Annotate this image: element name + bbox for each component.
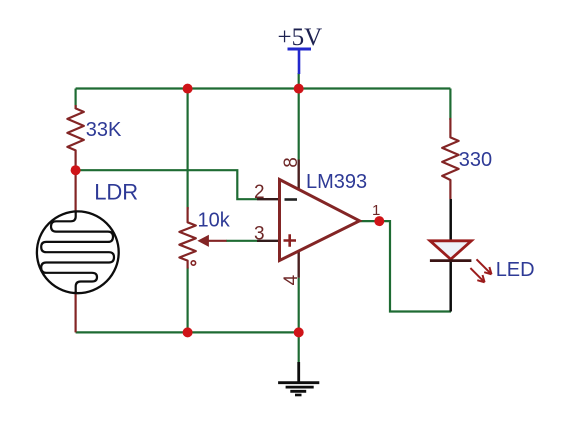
svg-text:+5V: +5V: [278, 24, 323, 51]
potentiometer terminal circle: [191, 261, 195, 265]
junction node bottom-pot: [183, 327, 193, 337]
svg-text:3: 3: [254, 224, 265, 245]
op-amp U1 pin8 stub: [298, 160, 300, 194]
wire bottom horizontal rail: [76, 331, 299, 333]
LED D1 triangle: [430, 241, 471, 259]
resistor R2 330: [442, 118, 458, 199]
LED emission arrow 1: [477, 259, 492, 274]
op-amp U1 pin3 stub: [257, 240, 280, 242]
junction node 33K-LDR: [71, 165, 81, 175]
wire left vertical from rail to 33K: [74, 89, 76, 110]
svg-text:330: 330: [459, 149, 492, 171]
wire pot bottom vertical: [187, 268, 189, 333]
wire mid vertical from rail to pot: [187, 89, 189, 210]
wire ground drop: [298, 332, 300, 362]
potentiometer wiper arrow: [209, 240, 227, 242]
LED D1 cathode bar: [430, 259, 472, 262]
ground symbol: [297, 362, 300, 382]
junction node bottom-gnd: [294, 327, 304, 337]
wire node-2 horizontal from 33K/LDR junction: [76, 170, 257, 199]
op-amp U1 triangle: [280, 180, 360, 261]
power +5V symbol bar: [288, 48, 312, 51]
junction node rail-mid: [294, 84, 304, 94]
junction node output: [374, 216, 384, 226]
svg-text:2: 2: [254, 182, 265, 203]
svg-text:LDR: LDR: [94, 180, 138, 205]
wire pin3 horizontal from pot wiper: [226, 240, 257, 242]
potentiometer RV1 10k body: [179, 207, 195, 269]
svg-text:33K: 33K: [86, 119, 122, 141]
wire pin8 vertical from rail to op-amp: [298, 73, 300, 160]
LED emission arrow 2: [470, 268, 484, 282]
svg-text:10k: 10k: [198, 210, 231, 232]
LDR body circle: [37, 211, 119, 293]
junction node rail-left: [183, 84, 193, 94]
op-amp minus marker: [285, 198, 298, 201]
op-amp U1 pin4 stub: [298, 249, 300, 278]
op-amp U1 pin2 stub: [257, 198, 280, 200]
wire top horizontal +5V rail: [76, 87, 451, 89]
LDR lead top: [74, 170, 76, 213]
LDR lead bottom: [74, 291, 76, 332]
svg-text:8: 8: [281, 157, 302, 168]
LDR serpentine track: [41, 213, 114, 293]
power +5V lead: [298, 49, 301, 74]
op-amp plus marker: [284, 234, 297, 247]
wire output to LED return: [360, 221, 452, 311]
resistor R1 33K: [67, 105, 83, 170]
LED D1 top lead: [449, 199, 452, 240]
wire right vertical from rail to 330: [449, 89, 451, 121]
svg-text:4: 4: [281, 274, 302, 285]
LED D1 bottom lead: [449, 261, 452, 312]
svg-text:LM393: LM393: [306, 171, 367, 193]
wire pin4 vertical to bottom rail: [298, 278, 300, 333]
svg-text:LED: LED: [496, 259, 535, 281]
